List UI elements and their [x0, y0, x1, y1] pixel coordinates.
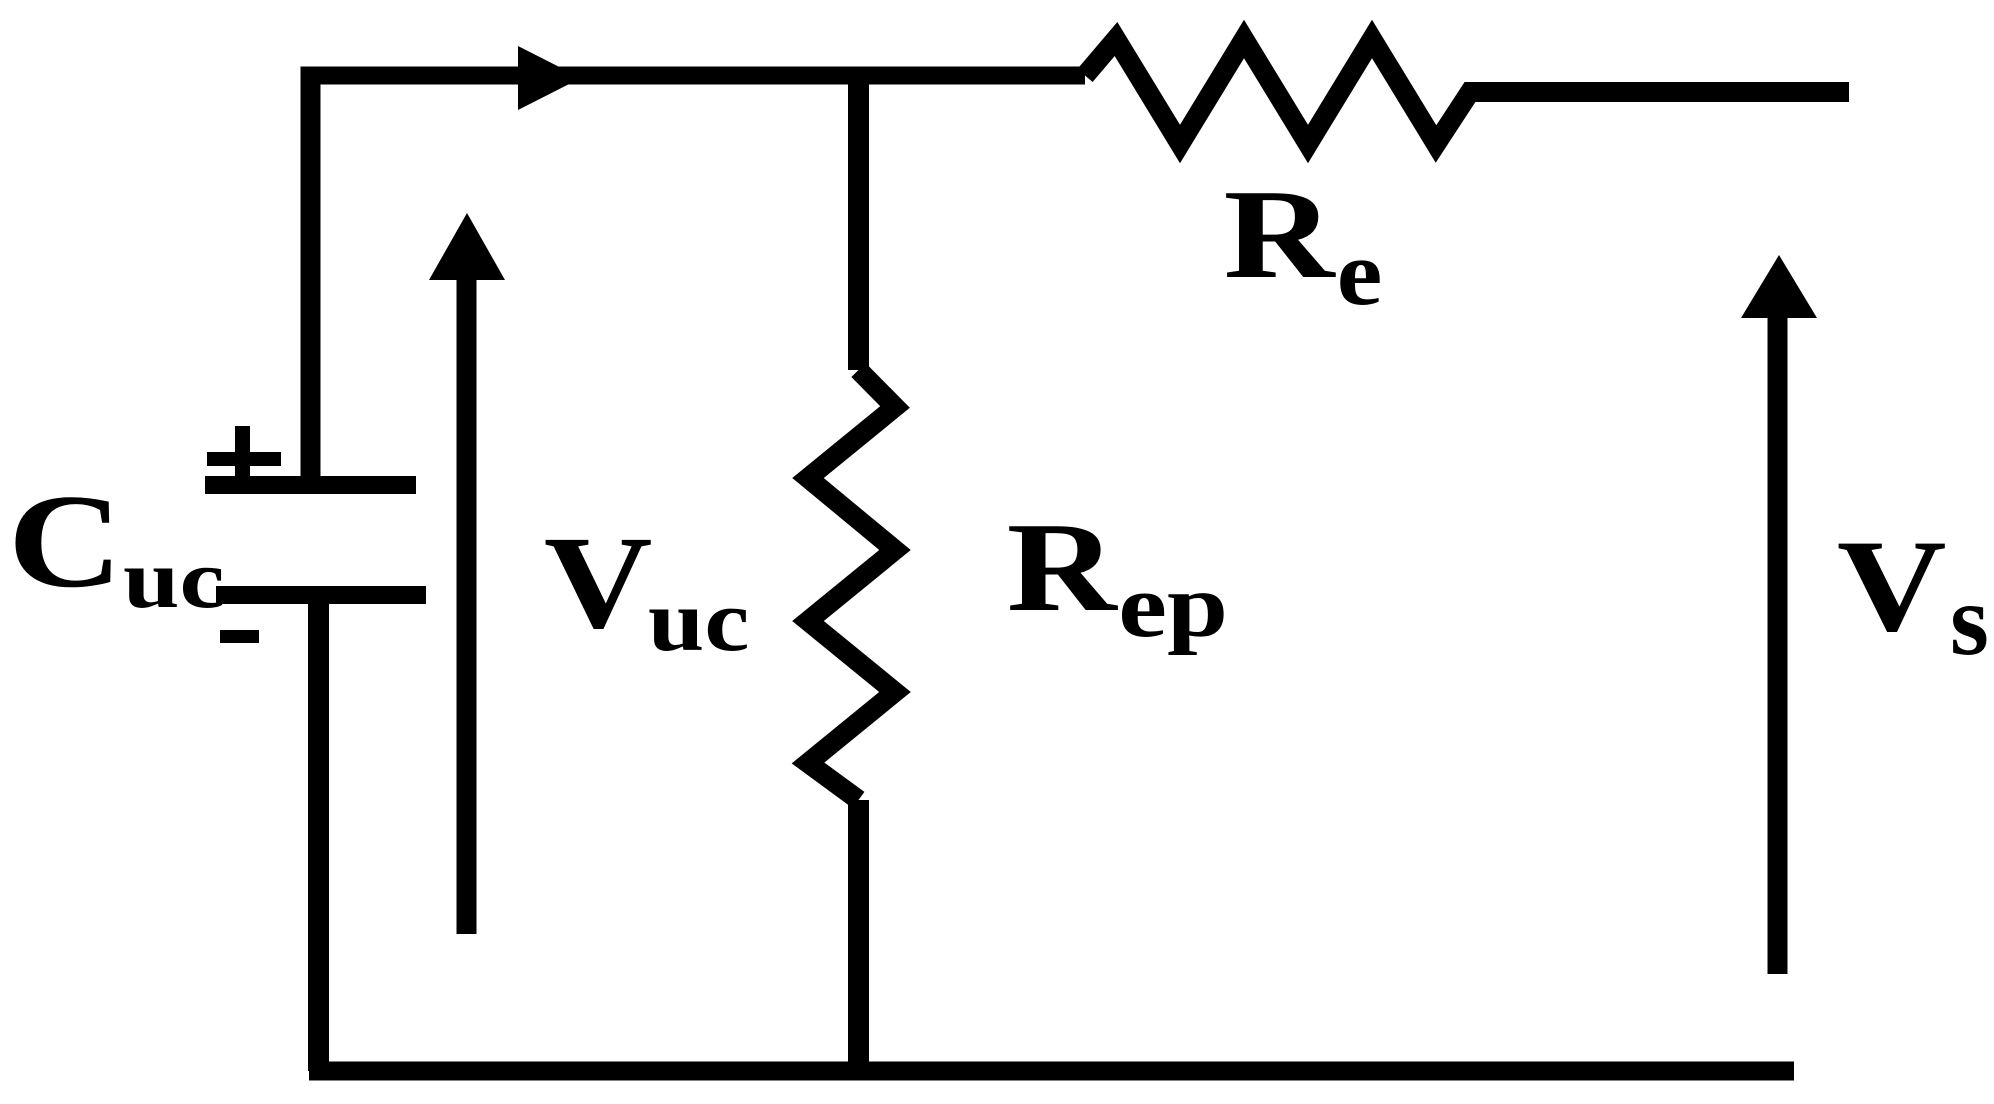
svg-text:e: e [1337, 222, 1383, 324]
svg-text:V: V [1837, 512, 1947, 659]
svg-text:uc: uc [648, 571, 749, 669]
svg-text:V: V [544, 509, 653, 656]
svg-text:R: R [1007, 497, 1119, 638]
svg-text:s: s [1950, 563, 1989, 676]
svg-text:ep: ep [1118, 556, 1228, 656]
svg-text:uc: uc [123, 533, 225, 626]
svg-text:R: R [1224, 163, 1337, 305]
svg-text:C: C [8, 467, 123, 615]
